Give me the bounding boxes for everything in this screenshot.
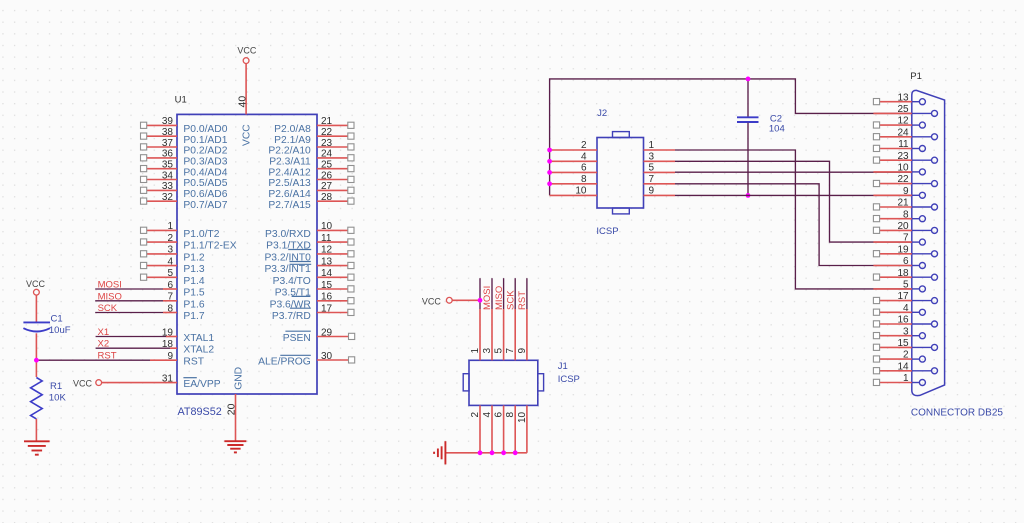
svg-text:MISO: MISO [494,286,505,310]
svg-text:10: 10 [897,163,909,174]
J1 pin 1 [479,278,481,309]
svg-text:10uF: 10uF [49,325,71,336]
svg-text:P1.7: P1.7 [183,311,204,322]
svg-text:RST: RST [183,357,204,368]
svg-text:32: 32 [162,192,174,203]
svg-text:31: 31 [162,373,174,384]
svg-text:MOSI: MOSI [98,280,122,291]
U1 pin 38 P0.1/AD1 [147,135,177,137]
svg-text:23: 23 [897,151,909,162]
svg-text:7: 7 [903,233,909,244]
svg-text:P3.7/RD: P3.7/RD [272,311,311,322]
P1 pin 4 [912,311,920,313]
svg-text:19: 19 [897,244,909,255]
svg-text:34: 34 [162,170,174,181]
U1 pin 6 P1.5 [95,288,163,290]
svg-text:29: 29 [321,327,333,338]
svg-text:9: 9 [649,185,655,196]
IC U1 AT89S52 chip body [177,114,317,394]
J1 pin 8 [514,405,516,452]
P1 pin 13 [912,101,920,103]
U1 pin 9 RST wire from RC junction [36,359,150,361]
svg-text:22: 22 [897,174,909,185]
svg-text:23: 23 [321,138,333,149]
J2 pin 7 [644,183,676,185]
svg-text:VCC: VCC [241,124,252,146]
svg-text:104: 104 [769,123,785,134]
svg-text:14: 14 [897,361,909,372]
wire VCC to pin 40 [245,64,247,115]
U1 pin 1 P1.0/T2 [147,229,177,231]
capacitor C1 10uF [23,321,50,323]
P1 pin 12 [912,124,920,126]
U1 pin 22 P2.1/A9 [317,135,348,137]
J2 pin 3 [644,160,676,162]
svg-text:28: 28 [321,192,333,203]
U1 pin 33 P0.6/AD6 [147,189,177,191]
U1 pin 5 P1.4 [147,276,177,278]
svg-text:10: 10 [517,411,528,423]
svg-text:33: 33 [162,181,174,192]
wire J2 pin3 to P1 pin7 [675,161,912,242]
U1 pin 11 P3.1/TXD [317,241,348,243]
ground symbol below R1 [24,440,50,442]
svg-text:22: 22 [321,127,333,138]
svg-text:13: 13 [897,92,909,103]
overline/underline bars for P3 names [288,249,311,251]
svg-text:XTAL1: XTAL1 [183,333,214,344]
svg-text:37: 37 [162,138,174,149]
svg-text:25: 25 [321,160,333,171]
svg-text:P3.3/INT1: P3.3/INT1 [264,264,311,275]
P1 pin 3 [912,335,920,337]
P1 pin 9 [912,194,920,196]
P1 pin 16 [912,323,932,325]
svg-text:PSEN: PSEN [283,333,311,344]
svg-text:P3.4/TO: P3.4/TO [273,276,311,287]
svg-text:X1: X1 [98,327,110,338]
svg-text:17: 17 [321,303,333,314]
svg-text:AT89S52: AT89S52 [178,406,222,418]
svg-text:2: 2 [581,140,587,151]
svg-text:10: 10 [575,185,587,196]
wire J2 pin7 to P1 pin6 [675,184,912,266]
svg-text:20: 20 [897,221,909,232]
svg-text:P2.6/A14: P2.6/A14 [268,189,311,200]
J2 pin 5 [644,171,676,173]
P1 pin 20 [912,229,932,231]
U1 pin 26 P2.5/A13 [317,179,348,181]
svg-text:26: 26 [321,170,333,181]
svg-text:19: 19 [162,327,174,338]
svg-text:9: 9 [903,186,909,197]
svg-text:P1.4: P1.4 [183,276,204,287]
svg-text:SCK: SCK [505,290,516,310]
svg-text:7: 7 [505,348,516,354]
svg-text:P0.5/AD5: P0.5/AD5 [183,178,227,189]
svg-text:P1.0/T2: P1.0/T2 [183,229,219,240]
svg-text:P3.0/RXD: P3.0/RXD [265,229,311,240]
U1 pin 34 P0.5/AD5 [147,179,177,181]
svg-text:16: 16 [321,292,333,303]
svg-text:C1: C1 [51,313,63,324]
J1 pin 6 [503,405,505,452]
svg-text:J2: J2 [597,108,607,119]
svg-text:38: 38 [162,127,174,138]
overline for EA [183,377,196,379]
svg-text:3: 3 [649,151,655,162]
svg-text:RST: RST [517,291,528,310]
svg-text:P0.4/AD4: P0.4/AD4 [183,167,227,178]
U1 pin 17 P3.7/RD [317,312,348,314]
junction RST node [34,358,39,363]
junction ground bus [501,450,506,455]
J2 pin 6 [550,171,597,173]
U1 pin 30 ALE/PROG [317,359,349,361]
J1 pin 10 [526,405,528,452]
junction ground bus [513,450,518,455]
U1 pin 15 P3.5/T1 [317,288,348,290]
svg-text:P0.7/AD7: P0.7/AD7 [183,200,227,211]
U1 pin 12 P3.2/INT0 [317,253,348,255]
svg-text:P1.6: P1.6 [183,299,204,310]
svg-text:14: 14 [321,268,333,279]
P1 pin 10 [912,171,920,173]
svg-text:EA/VPP: EA/VPP [183,379,220,390]
svg-text:P1.1/T2-EX: P1.1/T2-EX [183,241,236,252]
ground symbol left of J1 (rotated) [444,441,446,464]
P1 pin 6 [912,265,920,267]
svg-text:VCC: VCC [73,378,93,388]
svg-text:39: 39 [162,116,174,127]
svg-text:4: 4 [903,303,909,314]
wire C1 to RST junction [35,333,37,377]
junction C2 bottom on pin9 net [746,193,751,198]
svg-text:RST: RST [98,351,117,362]
svg-text:27: 27 [321,181,333,192]
svg-text:XTAL2: XTAL2 [183,345,214,356]
U1 pin 4 P1.3 [147,265,177,267]
svg-text:4: 4 [167,256,173,267]
svg-text:P0.3/AD3: P0.3/AD3 [183,157,227,168]
svg-text:18: 18 [897,268,909,279]
U1 pin 18 XTAL2, net X2 [96,347,170,349]
J1 pin 4 [491,405,493,452]
junction VCC-pin1 [478,298,483,303]
J2 pin 4 [550,160,597,162]
svg-text:30: 30 [321,351,333,362]
svg-text:6: 6 [903,256,909,267]
svg-text:21: 21 [897,198,909,209]
svg-text:40: 40 [237,96,249,108]
svg-text:8: 8 [903,209,909,220]
svg-text:7: 7 [649,174,655,185]
svg-text:R1: R1 [50,381,62,392]
svg-text:CONNECTOR DB25: CONNECTOR DB25 [911,408,1003,419]
svg-text:6: 6 [494,411,505,417]
svg-text:P0.1/AD1: P0.1/AD1 [183,135,227,146]
P1 pin 18 [912,276,932,278]
svg-text:35: 35 [162,160,174,171]
svg-text:P1.2: P1.2 [183,253,204,264]
svg-text:8: 8 [505,411,516,417]
P1 pin 2 [912,358,920,360]
svg-text:P2.0/A8: P2.0/A8 [274,124,311,135]
svg-text:4: 4 [581,151,587,162]
resistor R1 10K [31,378,43,419]
J2 pin 1 [644,149,676,151]
svg-text:3: 3 [482,348,493,354]
svg-text:P2.5/A13: P2.5/A13 [268,178,311,189]
U1 pin 28 P2.7/A15 [317,200,348,202]
P1 pin 23 [912,159,932,161]
svg-text:2: 2 [470,411,481,417]
P1 pin 8 [912,218,920,220]
U1 pin 24 P2.3/A11 [317,157,348,159]
svg-text:6: 6 [167,280,173,291]
svg-text:16: 16 [897,315,909,326]
P1 pin 21 [912,206,932,208]
svg-text:1: 1 [167,221,173,232]
svg-text:11: 11 [898,139,909,150]
svg-text:18: 18 [162,339,174,350]
P1 pin 11 [912,148,920,150]
svg-text:MOSI: MOSI [482,286,493,310]
U1 pin 16 P3.6/WR [317,300,348,302]
wire J2 pin1 to P1 pin5 [675,150,912,289]
svg-text:ICSP: ICSP [558,374,580,385]
U1 pin 36 P0.3/AD3 [147,157,177,159]
P1 pin 24 [912,136,932,138]
svg-text:U1: U1 [175,95,187,106]
P1 pin 22 [912,183,932,185]
svg-text:1: 1 [470,348,481,354]
svg-text:9: 9 [517,348,528,354]
junction ground bus [490,450,495,455]
svg-text:P0.2/AD2: P0.2/AD2 [183,146,227,157]
svg-text:8: 8 [581,174,587,185]
J2 pin 9 [644,194,676,196]
U1 pin 29 PSEN [317,336,349,338]
svg-text:2: 2 [903,350,909,361]
svg-text:3: 3 [903,326,909,337]
connector J1 body [469,360,538,405]
svg-text:ICSP: ICSP [596,226,618,237]
svg-text:1: 1 [649,140,655,151]
P1 pin 25 [912,112,932,114]
svg-text:P1.3: P1.3 [183,264,204,275]
svg-text:ALE/PROG: ALE/PROG [258,357,311,368]
svg-text:15: 15 [897,338,909,349]
J1 pin 7 [514,278,516,309]
U1 pin 39 P0.0/AD0 [147,124,177,126]
wire VCC to J1 pin1 [452,299,480,301]
capacitor C2 104 [747,79,749,117]
U1 pin 3 P1.2 [147,253,177,255]
U1 pin 27 P2.6/A14 [317,189,348,191]
svg-text:P2.4/A12: P2.4/A12 [268,167,311,178]
P1 pin 19 [912,253,932,255]
svg-text:MISO: MISO [98,291,122,302]
svg-text:17: 17 [897,291,909,302]
svg-text:13: 13 [321,256,333,267]
svg-text:SCK: SCK [98,303,118,314]
J2 pin 10 [550,194,597,196]
svg-text:P2.1/A9: P2.1/A9 [274,135,311,146]
svg-text:P2.3/A11: P2.3/A11 [269,157,311,168]
P1 pin 14 [912,370,932,372]
svg-text:9: 9 [167,351,173,362]
svg-text:P1: P1 [910,71,922,82]
svg-text:5: 5 [903,280,909,291]
U1 pin 14 P3.4/TO [317,276,348,278]
svg-text:2: 2 [167,233,173,244]
svg-text:GND: GND [234,367,245,390]
svg-text:6: 6 [581,162,587,173]
junction C2 top on VCC rail [746,77,751,82]
svg-text:5: 5 [494,348,505,354]
junction ground bus [478,450,483,455]
connector P1 DB25 body [912,90,945,395]
U1 pin 37 P0.2/AD2 [147,146,177,148]
svg-text:25: 25 [897,104,909,115]
J2 pin 2 [550,149,597,151]
U1 pin 8 P1.7 [95,312,163,314]
svg-text:20: 20 [225,403,237,415]
P1 pin 17 [912,300,932,302]
J1 pin 2 [479,405,481,452]
svg-text:J1: J1 [558,361,568,372]
svg-text:VCC: VCC [237,45,257,55]
wire J2 pin9 to P1 pin9 [675,194,912,196]
P1 pin 5 [912,288,920,290]
U1 pin 10 P3.0/RXD [317,229,348,231]
U1 pin 13 P3.3/INT1 [317,265,348,267]
svg-text:P0.0/AD0: P0.0/AD0 [183,124,227,135]
svg-text:VCC: VCC [26,279,46,289]
wire R1 to ground [35,419,37,441]
svg-text:3: 3 [167,245,173,256]
svg-text:VCC: VCC [422,297,442,307]
svg-text:12: 12 [897,116,909,127]
svg-text:5: 5 [649,162,655,173]
svg-text:8: 8 [167,303,173,314]
svg-text:11: 11 [321,233,332,244]
P1 pin 15 [912,346,932,348]
svg-text:24: 24 [321,149,333,160]
svg-text:5: 5 [167,268,173,279]
svg-text:P1.5: P1.5 [183,288,204,299]
svg-text:1: 1 [903,373,909,384]
P1 pin 1 [912,382,920,384]
connector J2 body [597,138,644,209]
svg-text:21: 21 [321,116,333,127]
U1 pin 32 P0.7/AD7 [147,200,177,202]
wire U1 pin 20 to ground [235,394,237,441]
svg-text:36: 36 [162,149,174,160]
wire J2 pin5 to P1 pin10 [675,171,912,173]
svg-text:10: 10 [321,221,333,232]
svg-text:12: 12 [321,245,333,256]
J1 pin 5 [503,278,505,309]
svg-text:P0.6/AD6: P0.6/AD6 [183,189,227,200]
svg-text:P2.2/A10: P2.2/A10 [268,146,311,157]
U1 pin 31 EA/VPP wire [102,382,177,384]
U1 pin 23 P2.2/A10 [317,146,348,148]
U1 pin 7 P1.6 [95,300,163,302]
svg-text:10K: 10K [49,393,67,404]
svg-text:4: 4 [482,411,493,417]
svg-text:15: 15 [321,280,333,291]
J2 pin 8 [550,183,597,185]
J1 pin 3 [491,278,493,309]
U1 pin 2 P1.1/T2-EX [147,241,177,243]
U1 pin 21 P2.0/A8 [317,124,348,126]
svg-text:X2: X2 [98,339,110,350]
P1 pin 7 [912,241,920,243]
wire J1 bottom pins to ground [445,452,527,454]
svg-text:7: 7 [167,292,173,303]
U1 pin 19 XTAL1, net X1 [96,336,166,338]
ground symbol below U1 [224,440,246,442]
J1 pin 9 [526,278,528,309]
svg-text:24: 24 [897,127,909,138]
U1 pin 25 P2.4/A12 [317,168,348,170]
svg-text:P2.7/A15: P2.7/A15 [268,200,311,211]
wire VCC to C1 [35,295,37,322]
U1 pin 35 P0.4/AD4 [147,168,177,170]
wire VCC top rail [550,79,912,195]
